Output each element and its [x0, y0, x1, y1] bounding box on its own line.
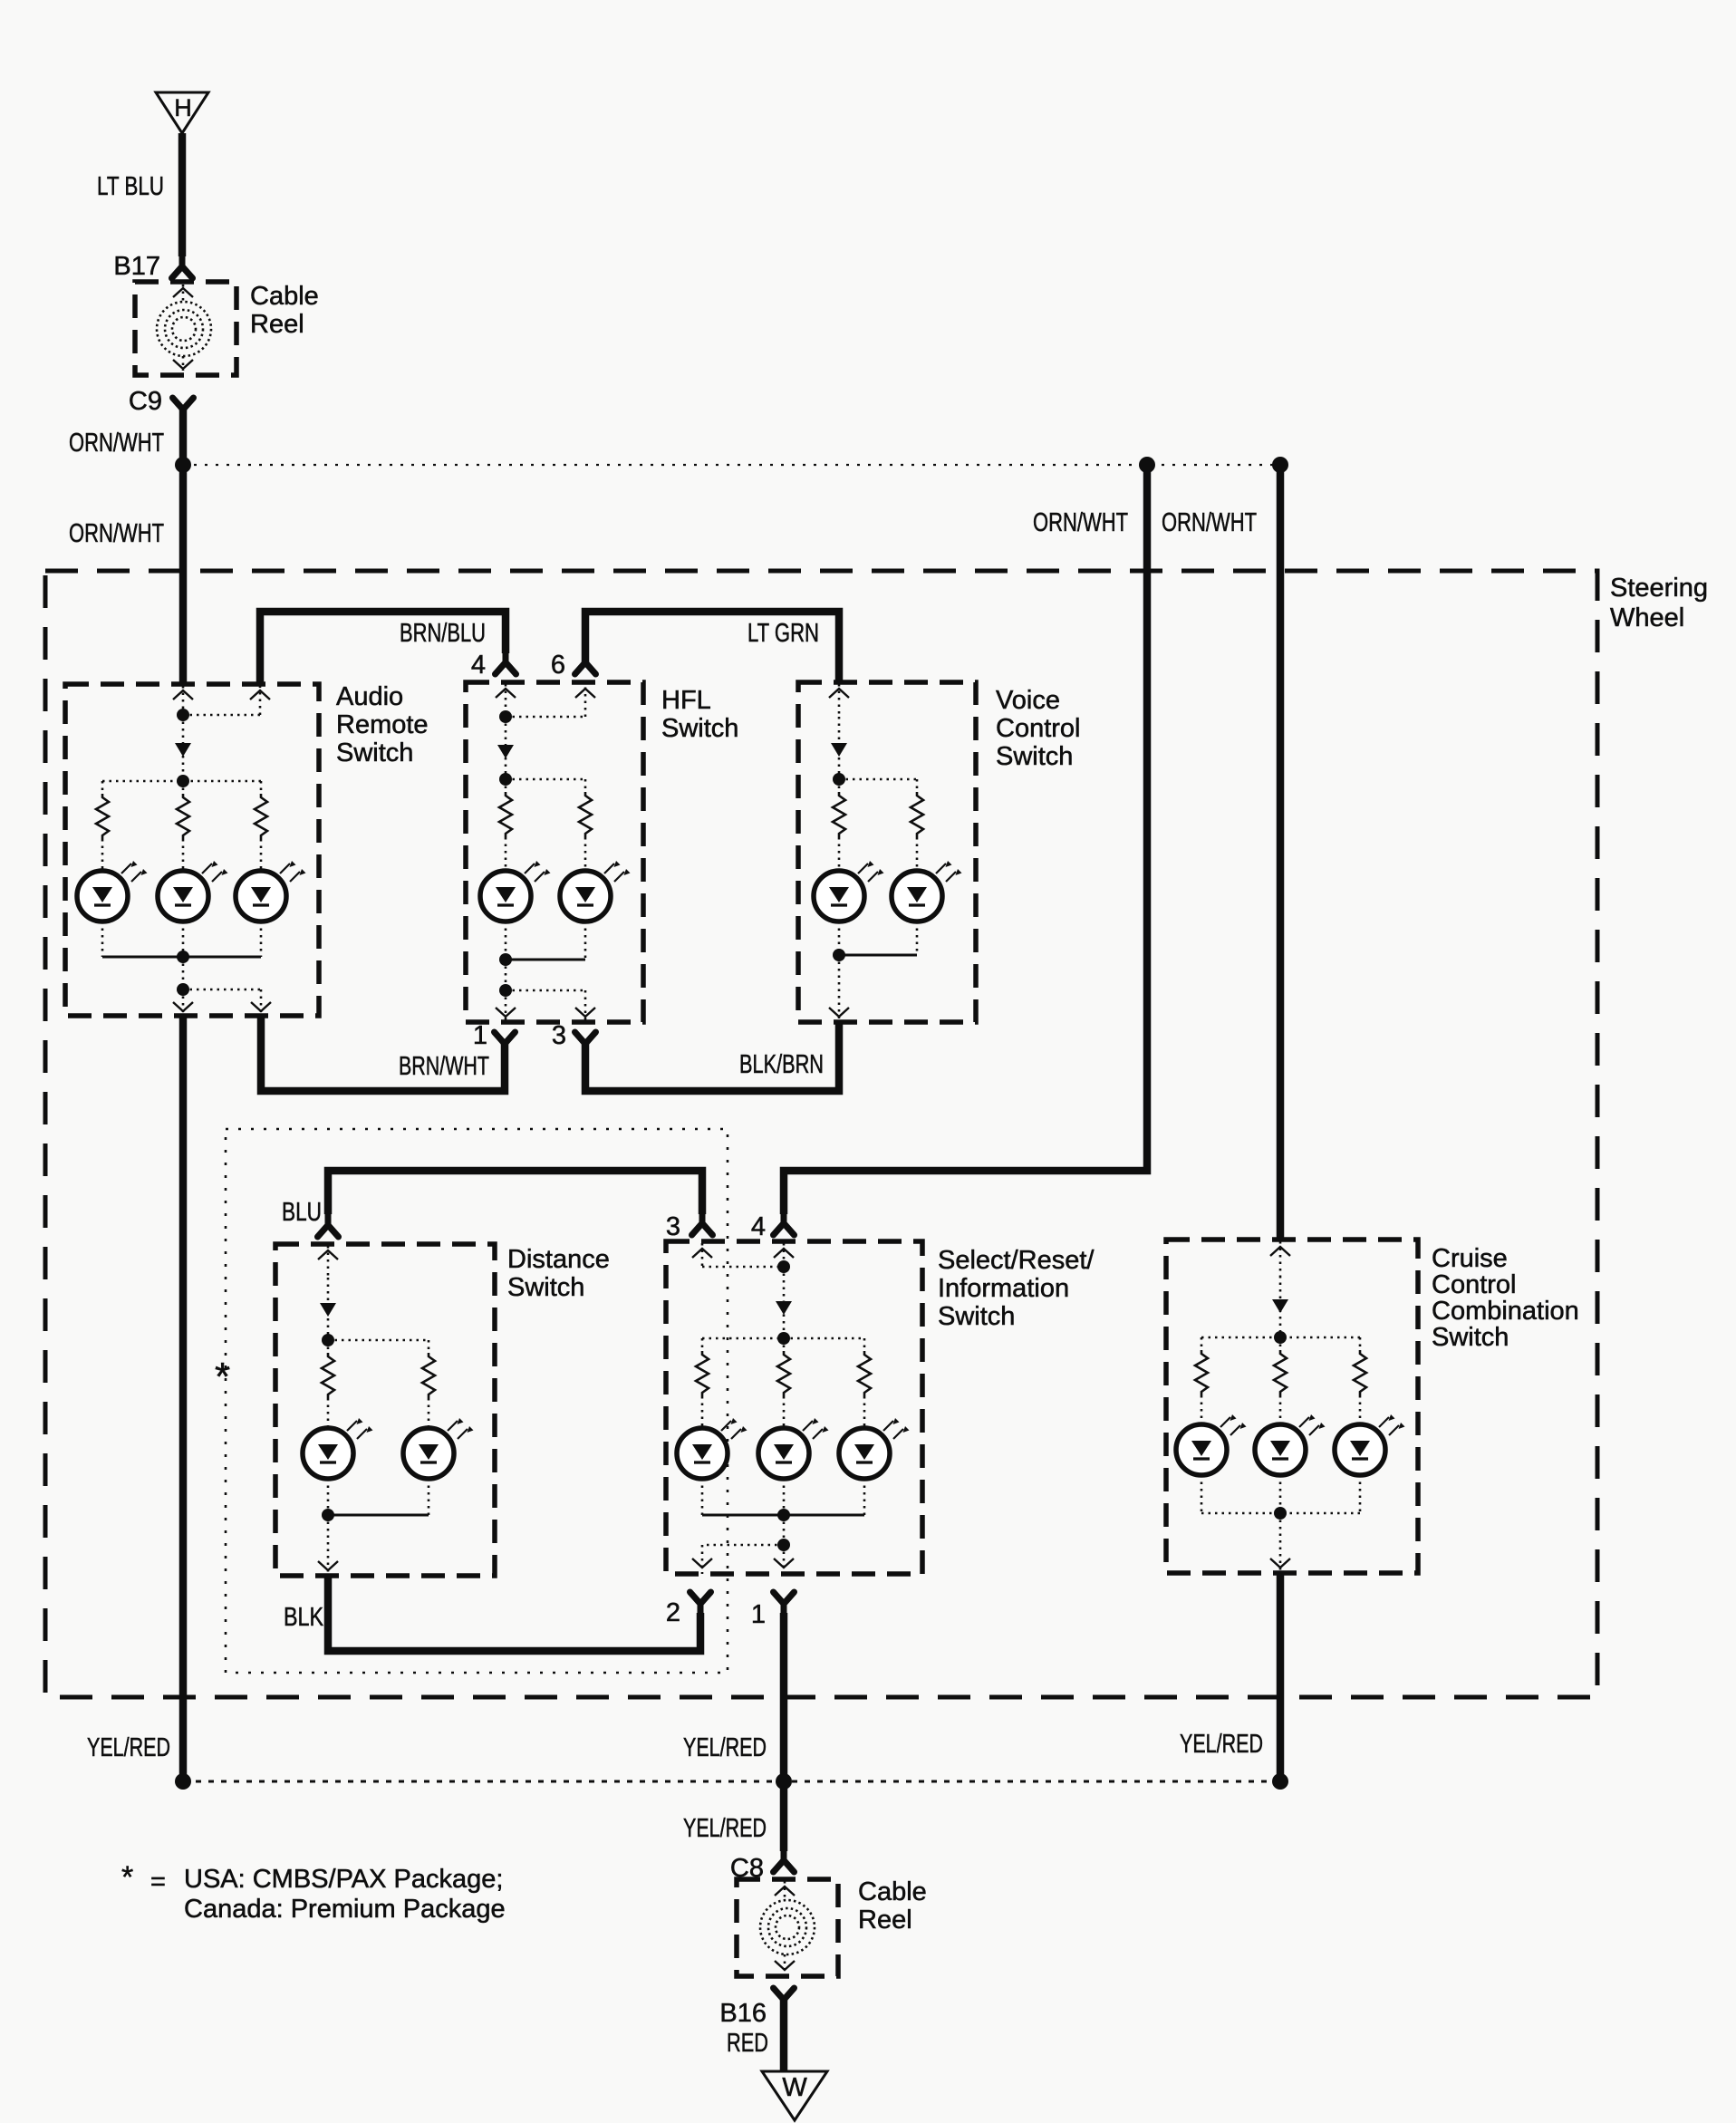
- svg-text:Distance: Distance: [507, 1245, 610, 1274]
- svg-text:BLU: BLU: [282, 1198, 322, 1227]
- svg-text:Cruise: Cruise: [1432, 1244, 1508, 1273]
- svg-text:Select/Reset/: Select/Reset/: [938, 1246, 1095, 1275]
- svg-text:Information: Information: [938, 1274, 1069, 1303]
- svg-text:6: 6: [551, 651, 565, 680]
- svg-text:=: =: [150, 1867, 166, 1896]
- svg-text:ORN/WHT: ORN/WHT: [1033, 508, 1128, 537]
- svg-text:YEL/RED: YEL/RED: [683, 1733, 767, 1762]
- svg-text:Reel: Reel: [250, 310, 304, 339]
- svg-text:Remote: Remote: [336, 710, 429, 739]
- svg-text:Combination: Combination: [1432, 1297, 1579, 1326]
- svg-text:LT BLU: LT BLU: [97, 172, 164, 201]
- svg-text:Switch: Switch: [938, 1302, 1015, 1331]
- svg-text:BLK: BLK: [284, 1603, 324, 1632]
- svg-text:ORN/WHT: ORN/WHT: [69, 429, 164, 458]
- svg-text:H: H: [174, 94, 192, 121]
- svg-text:Cable: Cable: [858, 1877, 927, 1906]
- svg-text:1: 1: [751, 1600, 766, 1629]
- svg-text:1: 1: [473, 1021, 487, 1050]
- svg-text:Switch: Switch: [1432, 1323, 1509, 1352]
- svg-text:B17: B17: [113, 252, 160, 281]
- svg-text:*: *: [121, 1860, 133, 1895]
- svg-text:W: W: [782, 2073, 807, 2102]
- svg-text:Canada: Premium Package: Canada: Premium Package: [184, 1895, 506, 1924]
- svg-text:Switch: Switch: [996, 742, 1073, 771]
- svg-text:ORN/WHT: ORN/WHT: [1162, 508, 1257, 537]
- svg-text:Voice: Voice: [996, 686, 1060, 715]
- svg-text:Control: Control: [996, 714, 1081, 743]
- svg-text:RED: RED: [727, 2029, 768, 2058]
- svg-text:4: 4: [751, 1212, 766, 1241]
- svg-text:4: 4: [471, 651, 486, 680]
- svg-text:USA: CMBS/PAX Package;: USA: CMBS/PAX Package;: [184, 1865, 503, 1894]
- svg-text:BRN/WHT: BRN/WHT: [399, 1052, 489, 1081]
- svg-text:B16: B16: [719, 1999, 767, 2028]
- svg-text:*: *: [215, 1355, 230, 1399]
- svg-text:2: 2: [666, 1598, 680, 1627]
- svg-text:Control: Control: [1432, 1270, 1517, 1299]
- svg-text:ORN/WHT: ORN/WHT: [69, 519, 164, 548]
- svg-text:C9: C9: [129, 387, 162, 416]
- svg-text:BLK/BRN: BLK/BRN: [739, 1050, 824, 1079]
- svg-text:BRN/BLU: BRN/BLU: [400, 619, 486, 648]
- svg-text:Steering: Steering: [1610, 574, 1708, 603]
- svg-text:LT GRN: LT GRN: [747, 619, 819, 648]
- svg-text:3: 3: [552, 1021, 566, 1050]
- svg-text:Reel: Reel: [858, 1906, 912, 1935]
- svg-text:Switch: Switch: [661, 714, 738, 743]
- svg-text:3: 3: [666, 1212, 680, 1241]
- svg-text:YEL/RED: YEL/RED: [87, 1733, 170, 1762]
- svg-text:YEL/RED: YEL/RED: [683, 1814, 767, 1843]
- svg-text:Switch: Switch: [336, 738, 413, 767]
- svg-text:Wheel: Wheel: [1610, 603, 1684, 632]
- svg-text:YEL/RED: YEL/RED: [1180, 1730, 1263, 1759]
- svg-text:Cable: Cable: [250, 282, 319, 311]
- svg-text:HFL: HFL: [661, 686, 711, 715]
- svg-text:Audio: Audio: [336, 682, 403, 711]
- svg-text:Switch: Switch: [507, 1273, 584, 1302]
